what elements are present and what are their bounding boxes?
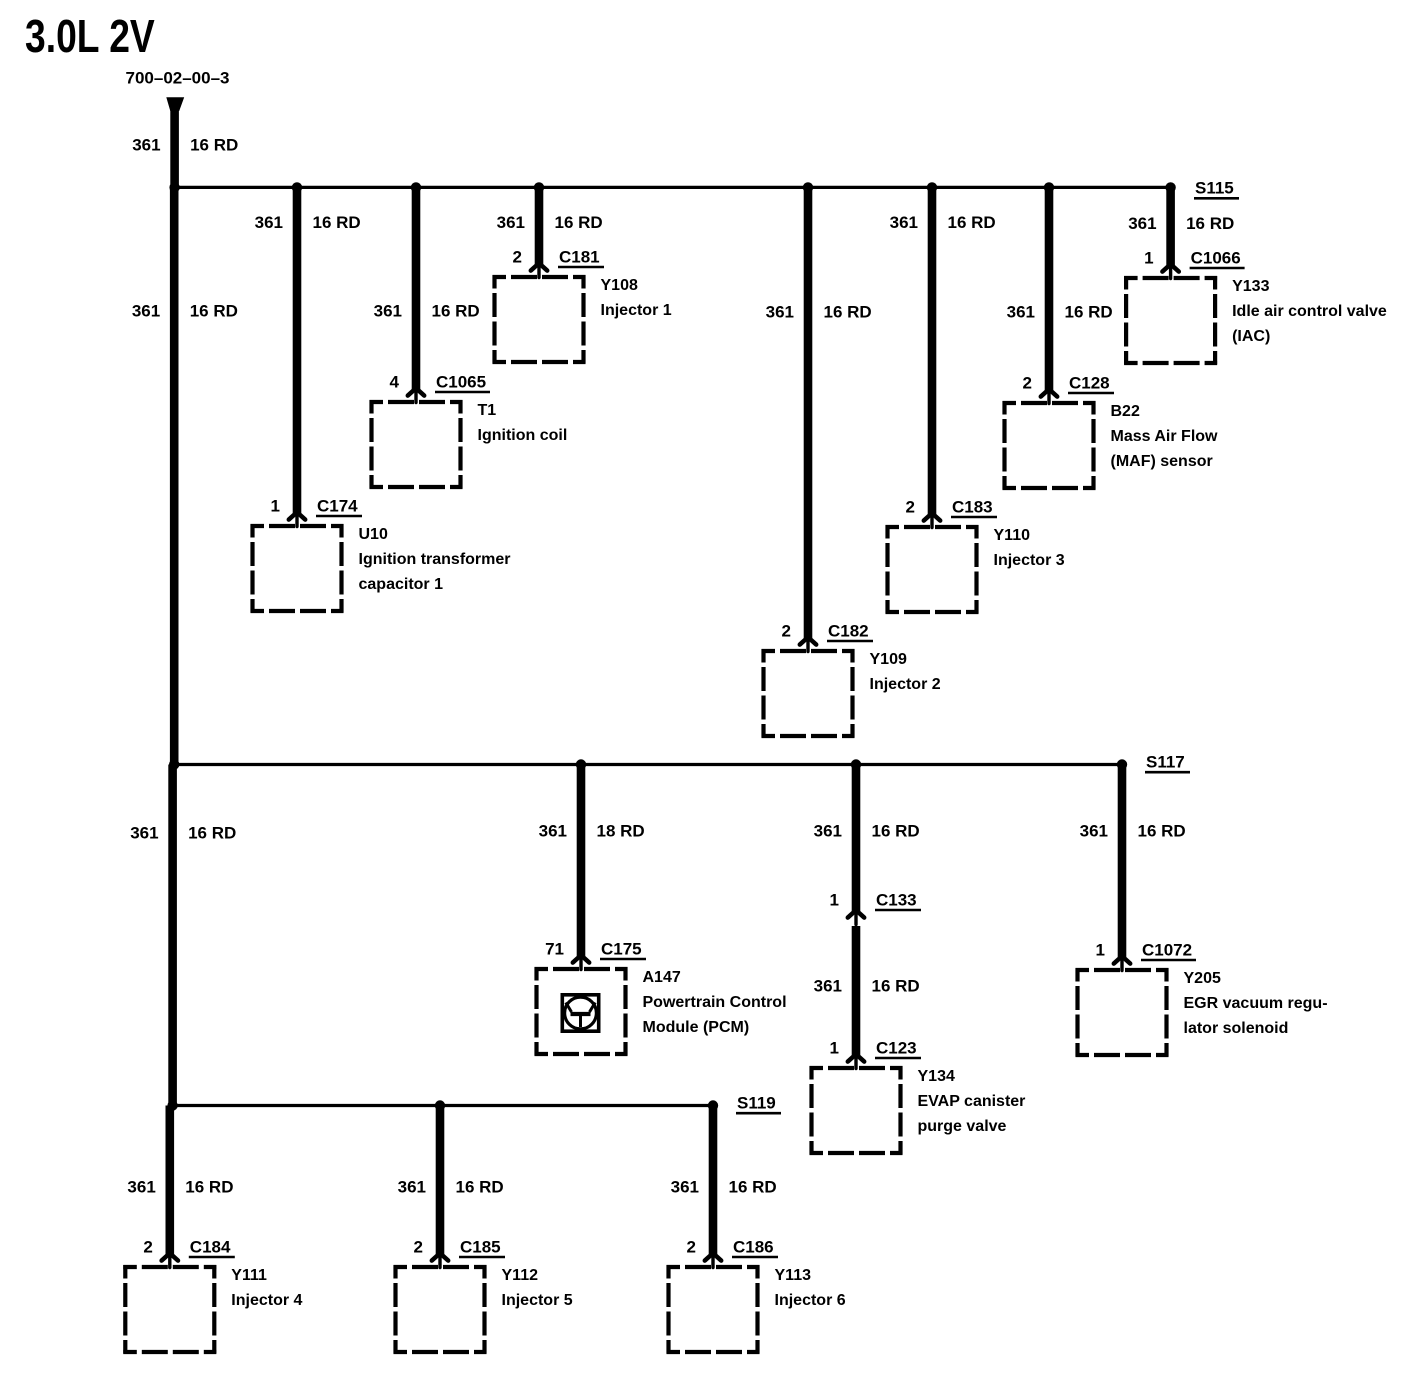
svg-text:Mass Air Flow: Mass Air Flow: [1111, 428, 1219, 445]
svg-text:700–02–00–3: 700–02–00–3: [126, 68, 230, 87]
svg-text:16 RD: 16 RD: [1065, 302, 1113, 321]
connector C174 label: [316, 496, 362, 516]
svg-text:16 RD: 16 RD: [872, 976, 920, 995]
svg-text:C181: C181: [559, 247, 600, 266]
pin 1 of connector C133: [830, 890, 839, 909]
wire 361 16 RD branch to C174: [293, 187, 302, 513]
component T1 Ignition coil name label: [478, 402, 568, 444]
svg-text:C186: C186: [733, 1237, 774, 1256]
connector C1072 label: [1141, 940, 1196, 960]
svg-text:purge valve: purge valve: [918, 1118, 1007, 1135]
diagram title 3.0L 2V: [25, 10, 155, 62]
svg-text:2: 2: [1023, 373, 1032, 392]
svg-text:C1066: C1066: [1191, 248, 1241, 267]
svg-text:361: 361: [1007, 302, 1035, 321]
wire value label 16 RD (branch C1066): [1186, 214, 1234, 233]
connector C185 terminal symbol: [432, 1253, 448, 1267]
splice S115: [1165, 182, 1175, 192]
wire 361 16 RD segment C133 to C123: [852, 926, 861, 1055]
component Y112 dashed box: [394, 1265, 487, 1354]
splice S115 label: [1194, 179, 1239, 199]
svg-text:Y134: Y134: [918, 1068, 955, 1085]
wire 361 16 RD branch to C1065: [412, 187, 421, 389]
svg-text:S119: S119: [737, 1093, 776, 1112]
wire value label 361 (branch C184): [127, 1177, 155, 1196]
wire 361 16 RD main feed segment (arrow to splice bus 1): [170, 105, 179, 187]
component Y111 dashed box: [123, 1265, 216, 1354]
connector C1065 label: [435, 372, 490, 392]
svg-text:C133: C133: [876, 890, 917, 909]
svg-text:C1072: C1072: [1142, 940, 1192, 959]
wire value label 361 (branch C181): [497, 213, 525, 232]
svg-text:C182: C182: [828, 621, 869, 640]
connector C128 terminal symbol: [1041, 389, 1057, 403]
wire value label 361 (branch C174): [255, 213, 283, 232]
junction bus1 branch C183: [927, 182, 937, 192]
svg-text:Powertrain Control: Powertrain Control: [643, 994, 787, 1011]
svg-text:Injector 4: Injector 4: [231, 1292, 302, 1309]
svg-text:16 RD: 16 RD: [1186, 214, 1234, 233]
svg-text:C183: C183: [952, 497, 993, 516]
svg-text:Y133: Y133: [1232, 278, 1269, 295]
svg-text:C128: C128: [1069, 373, 1110, 392]
wire value label 16 RD (branch C182): [824, 302, 872, 321]
connector C1065 terminal symbol: [408, 388, 424, 402]
wire value label 16 RD (main bus1-bus2): [190, 301, 238, 320]
connector C181 label: [558, 247, 604, 267]
connector C185 label: [459, 1237, 505, 1257]
component Y108 Injector 1 name label: [601, 277, 672, 319]
junction main feed / bus3: [167, 1100, 177, 1110]
connector C181 terminal symbol: [531, 263, 547, 277]
svg-text:EGR vacuum regu-: EGR vacuum regu-: [1184, 995, 1328, 1012]
svg-text:Y113: Y113: [775, 1267, 812, 1284]
svg-text:C185: C185: [460, 1237, 501, 1256]
wire 361 16 RD branch to C186: [709, 1106, 718, 1255]
component Y134 dashed box: [810, 1066, 903, 1155]
svg-text:16 RD: 16 RD: [872, 821, 920, 840]
pin 1 of connector C123: [830, 1038, 839, 1057]
component Y133 dashed box: [1124, 276, 1217, 365]
svg-text:3.0L 2V: 3.0L 2V: [25, 10, 155, 62]
connector C175 terminal symbol: [573, 955, 589, 969]
svg-text:Injector 6: Injector 6: [775, 1292, 846, 1309]
pin 4 of connector C1065: [390, 372, 400, 391]
splice S119: [708, 1100, 718, 1110]
wire value label 16 RD (branch C174): [313, 213, 361, 232]
wire value label 16 RD (branch C128): [1065, 302, 1113, 321]
wire value label 16 RD (branch C183): [948, 213, 996, 232]
component Y109 Injector 2 name label: [870, 651, 941, 693]
junction bus1 branch C181: [534, 182, 544, 192]
svg-text:2: 2: [687, 1237, 696, 1256]
svg-text:1: 1: [1096, 940, 1105, 959]
svg-text:(IAC): (IAC): [1232, 328, 1270, 345]
svg-text:361: 361: [890, 213, 918, 232]
svg-text:S117: S117: [1146, 752, 1185, 771]
svg-text:Y109: Y109: [870, 651, 907, 668]
svg-text:T1: T1: [478, 402, 497, 419]
svg-text:1: 1: [830, 1038, 839, 1057]
junction bus2 branch C175: [576, 759, 586, 769]
svg-text:S115: S115: [1195, 179, 1234, 198]
wire value label 16 RD (main feed top): [190, 136, 238, 155]
svg-text:2: 2: [143, 1237, 152, 1256]
svg-text:16 RD: 16 RD: [555, 213, 603, 232]
svg-text:Module (PCM): Module (PCM): [643, 1019, 750, 1036]
svg-text:361: 361: [1080, 821, 1108, 840]
connector C123 terminal symbol: [848, 1054, 864, 1068]
svg-text:16 RD: 16 RD: [948, 213, 996, 232]
svg-text:C123: C123: [876, 1038, 917, 1057]
power feed arrow head: [166, 97, 184, 111]
svg-text:16 RD: 16 RD: [190, 301, 238, 320]
splice bus wire S117 (horizontal): [174, 763, 1122, 766]
wire 361 16 RD branch to C128: [1045, 187, 1054, 390]
junction bus1 branch C174: [292, 182, 302, 192]
svg-text:2: 2: [782, 621, 791, 640]
component Y110 dashed box: [886, 525, 979, 614]
pin 1 of connector C1066: [1144, 248, 1153, 267]
svg-text:C175: C175: [601, 939, 642, 958]
connector C184 terminal symbol: [162, 1253, 178, 1267]
svg-text:361: 361: [671, 1177, 699, 1196]
pin 2 of connector C184: [143, 1237, 152, 1256]
svg-text:2: 2: [414, 1237, 423, 1256]
junction main feed / bus2: [169, 759, 179, 769]
wire value label 16 RD (branch C184): [185, 1177, 233, 1196]
wire value label 361 (branch C133): [814, 821, 842, 840]
wire value label 16 RD (branch C1065): [432, 301, 480, 320]
wire value label 361 (branch C175): [539, 821, 567, 840]
svg-text:Injector 1: Injector 1: [601, 302, 672, 319]
wire 361 16 RD branch to C181: [535, 187, 544, 264]
svg-text:Injector 2: Injector 2: [870, 676, 941, 693]
svg-text:2: 2: [513, 247, 522, 266]
component A147 Powertrain Control Module (PCM) name label: [643, 969, 787, 1036]
power feed reference 700-02-00-3: [126, 68, 230, 87]
svg-text:361: 361: [497, 213, 525, 232]
svg-text:361: 361: [539, 821, 567, 840]
svg-text:361: 361: [255, 213, 283, 232]
wire 361 18 RD branch to C175: [577, 765, 586, 957]
wire value label 361 (branch C185): [398, 1177, 426, 1196]
svg-text:1: 1: [1144, 248, 1153, 267]
pin 2 of connector C186: [687, 1237, 696, 1256]
svg-text:16 RD: 16 RD: [188, 823, 236, 842]
svg-text:16 RD: 16 RD: [190, 136, 238, 155]
svg-text:361: 361: [130, 823, 158, 842]
splice S119 label: [736, 1093, 781, 1113]
component Y134 EVAP canister purge valve name label: [918, 1068, 1026, 1135]
wire 361 16 RD branch to C185: [436, 1106, 445, 1255]
svg-text:16 RD: 16 RD: [313, 213, 361, 232]
pin 1 of connector C1072: [1096, 940, 1105, 959]
svg-text:Y112: Y112: [502, 1267, 539, 1284]
wire value label 16 RD (segment C133-C123): [872, 976, 920, 995]
svg-text:16 RD: 16 RD: [456, 1177, 504, 1196]
svg-text:4: 4: [390, 372, 400, 391]
connector C133 terminal symbol: [848, 910, 864, 924]
svg-text:16 RD: 16 RD: [1138, 821, 1186, 840]
wire 361 16 RD main segment (bus2 to bus3): [168, 765, 177, 1106]
svg-text:C184: C184: [190, 1237, 231, 1256]
component U10 dashed box: [251, 524, 344, 613]
connector C128 label: [1068, 373, 1114, 393]
pin 2 of connector C185: [414, 1237, 423, 1256]
splice S117: [1117, 759, 1127, 769]
wire 361 16 RD branch to C133: [852, 765, 861, 912]
component Y113 Injector 6 name label: [775, 1267, 846, 1309]
wire value label 361 (branch C183): [890, 213, 918, 232]
component Y205 EGR vacuum regulator solenoid name label: [1184, 970, 1328, 1037]
svg-text:Idle air control valve: Idle air control valve: [1232, 303, 1387, 320]
svg-text:Injector 5: Injector 5: [502, 1292, 573, 1309]
svg-text:Y205: Y205: [1184, 970, 1221, 987]
svg-text:Y110: Y110: [994, 527, 1031, 544]
component A147 PCM icon (circle in square): [562, 995, 598, 1031]
wire value label 16 RD (main bus2-bus3): [188, 823, 236, 842]
svg-text:361: 361: [132, 301, 160, 320]
connector C184 label: [189, 1237, 235, 1257]
connector C174 terminal symbol: [289, 512, 305, 526]
svg-text:capacitor 1: capacitor 1: [359, 576, 444, 593]
component Y109 dashed box: [762, 649, 855, 738]
svg-text:361: 361: [398, 1177, 426, 1196]
splice bus wire S119 (horizontal): [173, 1104, 713, 1107]
svg-text:361: 361: [766, 302, 794, 321]
wire value label 361 (branch C128): [1007, 302, 1035, 321]
wire 361 16 RD branch to C1066: [1166, 187, 1175, 265]
svg-text:16 RD: 16 RD: [432, 301, 480, 320]
splice S117 label: [1145, 752, 1190, 772]
svg-text:1: 1: [830, 890, 839, 909]
connector C182 label: [827, 621, 873, 641]
component T1 dashed box: [370, 400, 463, 489]
pin 1 of connector C174: [271, 496, 280, 515]
svg-text:EVAP canister: EVAP canister: [918, 1093, 1026, 1110]
component Y108 dashed box: [493, 275, 586, 364]
wire value label 361 (branch C1072): [1080, 821, 1108, 840]
svg-text:Injector 3: Injector 3: [994, 552, 1065, 569]
component U10 Ignition transformer capacitor 1 name label: [359, 526, 511, 593]
junction bus1 branch C1065: [411, 182, 421, 192]
splice bus wire S115 (horizontal): [175, 186, 1171, 189]
pin 71 of connector C175: [545, 939, 564, 958]
wire value label 361 (segment C133-C123): [814, 976, 842, 995]
connector C133 label: [875, 890, 921, 910]
junction bus3 branch C185: [435, 1100, 445, 1110]
wire 361 16 RD branch to C183: [928, 187, 937, 514]
wire 361 16 RD branch to C182: [804, 187, 813, 638]
wire value label 18 RD (branch C175): [597, 821, 645, 840]
svg-text:(MAF) sensor: (MAF) sensor: [1111, 453, 1213, 470]
svg-text:A147: A147: [643, 969, 681, 986]
svg-text:16 RD: 16 RD: [824, 302, 872, 321]
svg-text:C1065: C1065: [436, 372, 486, 391]
svg-text:361: 361: [814, 821, 842, 840]
connector C183 terminal symbol: [924, 513, 940, 527]
svg-text:361: 361: [1128, 214, 1156, 233]
svg-text:Y108: Y108: [601, 277, 638, 294]
junction main feed / bus1: [169, 182, 179, 192]
svg-text:18 RD: 18 RD: [597, 821, 645, 840]
connector C1066 label: [1190, 248, 1245, 268]
svg-text:361: 361: [127, 1177, 155, 1196]
svg-text:U10: U10: [359, 526, 388, 543]
pin 2 of connector C183: [906, 497, 915, 516]
component B22 Mass Air Flow (MAF) sensor name label: [1111, 403, 1219, 470]
connector C182 terminal symbol: [800, 637, 816, 651]
svg-text:B22: B22: [1111, 403, 1140, 420]
pin 2 of connector C181: [513, 247, 522, 266]
connector C1072 terminal symbol: [1114, 956, 1130, 970]
wire value label 361 (branch C186): [671, 1177, 699, 1196]
component Y133 Idle air control valve (IAC) name label: [1232, 278, 1387, 345]
svg-text:Ignition coil: Ignition coil: [478, 427, 568, 444]
connector C183 label: [951, 497, 997, 517]
svg-text:16 RD: 16 RD: [185, 1177, 233, 1196]
junction bus1 branch C182: [803, 182, 813, 192]
svg-text:C174: C174: [317, 496, 358, 515]
connector C123 label: [875, 1038, 921, 1058]
wire value label 16 RD (branch C133): [872, 821, 920, 840]
wire value label 361 (main feed top): [132, 136, 160, 155]
wire value label 16 RD (branch C186): [729, 1177, 777, 1196]
wire 361 16 RD branch to C1072: [1118, 765, 1127, 958]
component B22 dashed box: [1003, 401, 1096, 490]
svg-text:361: 361: [814, 976, 842, 995]
connector C186 terminal symbol: [705, 1253, 721, 1267]
wire value label 361 (main bus1-bus2): [132, 301, 160, 320]
wire value label 361 (branch C1065): [374, 301, 402, 320]
svg-text:Ignition transformer: Ignition transformer: [359, 551, 511, 568]
connector C1066 terminal symbol: [1162, 264, 1178, 278]
wire value label 361 (branch C182): [766, 302, 794, 321]
svg-text:361: 361: [374, 301, 402, 320]
svg-text:lator solenoid: lator solenoid: [1184, 1020, 1289, 1037]
wire value label 16 RD (branch C1072): [1138, 821, 1186, 840]
component Y112 Injector 5 name label: [502, 1267, 573, 1309]
svg-text:16 RD: 16 RD: [729, 1177, 777, 1196]
component Y111 Injector 4 name label: [231, 1267, 302, 1309]
wire 361 16 RD branch to C184: [166, 1106, 175, 1255]
component A147 dashed box: [535, 967, 628, 1056]
wire value label 16 RD (branch C185): [456, 1177, 504, 1196]
svg-text:1: 1: [271, 496, 280, 515]
wire 361 16 RD main segment (bus1 to bus2): [170, 187, 179, 764]
connector C175 label: [600, 939, 646, 959]
junction bus2 branch C133: [851, 759, 861, 769]
wire value label 16 RD (branch C181): [555, 213, 603, 232]
component Y110 Injector 3 name label: [994, 527, 1065, 569]
pin 2 of connector C182: [782, 621, 791, 640]
svg-text:361: 361: [132, 136, 160, 155]
svg-text:Y111: Y111: [231, 1267, 267, 1284]
component Y113 dashed box: [667, 1265, 760, 1354]
svg-text:2: 2: [906, 497, 915, 516]
connector C186 label: [732, 1237, 778, 1257]
pin 2 of connector C128: [1023, 373, 1032, 392]
junction bus1 branch C128: [1044, 182, 1054, 192]
wire value label 361 (branch C1066): [1128, 214, 1156, 233]
component Y205 dashed box: [1076, 968, 1169, 1057]
svg-text:71: 71: [545, 939, 564, 958]
wire value label 361 (main bus2-bus3): [130, 823, 158, 842]
